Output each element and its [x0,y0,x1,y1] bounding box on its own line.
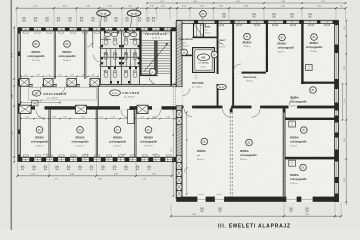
door arcs lobby junction [183,88,190,95]
wall under office 34 y72 [233,72,266,74]
dashed partition between room 28 and 29 [229,108,231,196]
office A east column label [310,87,317,94]
left wing west exterior wall [18,28,21,162]
room 32 circle [181,49,187,55]
right secondary vertical dimension segment [342,84,344,120]
west wall X pier stack lower [176,111,181,118]
door leaf boxes east rooms [289,121,296,127]
office 29 label [246,139,253,146]
WC internal partitions [101,40,140,67]
stair direction line [144,43,168,72]
corridor north wall piers with X bracing [20,79,30,87]
right block west exterior wall hatched [176,21,182,199]
wall between offices 35 and 36 x301 [301,24,303,85]
corridor FOLYOSO label [110,90,121,96]
interior dimension line room 28 [186,112,188,194]
office C east column label [300,164,307,171]
left wing interior fill [21,31,177,158]
drawing frame left border [10,0,12,230]
WC door arcs [100,44,104,48]
bottom office row partition walls [48,110,50,158]
elevator shaft LIFTAKNA [193,48,215,73]
office B east column label [301,127,308,134]
corridor south wall piers with X bracing [19,105,31,113]
svg-text:III. EMELETI ALAPRAJZ: III. EMELETI ALAPRAJZ [218,223,291,229]
wall under TEAKONYHA y55 [182,55,194,57]
office room 26 top-left label [33,41,40,48]
kozlekedo inner dimension line [21,102,60,104]
WC washbasin ovals top row [104,32,110,36]
window sill marks inside rooms top wall [23,31,170,33]
office row interior dimension line [21,75,98,77]
door arcs right block lobby wall [223,109,231,117]
sanitary block walls WC area [101,31,140,85]
column block at corridor [128,110,135,124]
top main dimension chain [17,7,346,9]
room 31 leader circle above top wall [200,11,207,18]
bottom dimension chain right block [171,215,341,217]
room 26 circulation label KOZLEKEDO [29,88,97,100]
extension lines bottom dimensions [18,162,342,215]
wall between storage column and office 34 x233 [232,24,234,107]
stair flight number circle IV [149,69,156,76]
room 33 circle [211,51,217,57]
office 36 label [311,34,318,41]
extension lines from top dimension chain to walls [17,9,346,27]
lobby dividing wall vertical x217 [217,24,219,107]
door arcs top offices into corridor [33,87,41,95]
threshold dashed lines at wing junction [172,87,174,106]
wall under office 36 y82 [301,82,334,84]
top secondary dimension chain right half [147,2,346,4]
hatched partition between room 29 and east rooms [282,108,284,196]
corridor north wall [21,83,177,85]
left wing bottom exterior wall with windows [18,157,178,162]
right block top exterior wall with windows [176,20,339,23]
stairwell LEPCSOHAZ enclosure [140,29,142,77]
office 28 label [201,138,208,145]
door arc office 34 [234,64,241,71]
office 35 label [279,34,286,41]
stairwell exit door arcs [149,78,157,85]
right block interior fill [180,23,336,197]
bottom dimension chain left wing [18,175,173,177]
wall under shaft and RAKT y37 [193,37,219,39]
door arc into room 35 from lobby [289,98,297,106]
WF fixture at corridor wall [32,101,39,106]
leader oval 26-36 first [97,10,111,16]
WC fixtures toilets and basins [104,40,108,45]
bottom row office labels [36,127,43,134]
WC door jambs dark blocks [101,45,103,47]
lobby south wall spanning right block y106 [182,106,335,109]
stair treads [142,41,170,74]
wall between offices 34 and 35 x266 [266,24,268,73]
leader oval 26-36 second [127,10,141,16]
door arcs from corridor to bottom offices [36,110,45,118]
oval label 26-32 in lobby [217,84,227,89]
kozlekedo partition wall [97,86,99,106]
office room 26a second top office label [64,41,71,48]
stair stringer handrail [155,41,158,75]
window sill marks right block top wall [200,24,329,26]
opening between corridor and right block lobby [176,87,183,106]
shaft enclosure near top [194,24,204,38]
vestibule walls and door arcs [92,31,94,48]
office 34 label [244,33,251,40]
window mullion ticks left wing walls [26,28,168,162]
right block east exterior wall with windows [335,20,339,202]
left wing top exterior wall with windows [18,28,177,31]
wall between rooms B and C right column y157 [285,157,335,160]
door arc storage RAKT2 [218,38,224,44]
corridor dimension chain [21,118,175,120]
window sill marks inside rooms bottom wall [23,155,171,157]
wall between rooms A and B right column y118 [285,118,335,120]
corridor south wall [21,106,177,109]
right vertical dimension chain [345,21,347,206]
right block bottom exterior wall with windows [176,197,338,202]
left vertical dimension chain [13,28,15,163]
top office row partition walls [53,31,55,79]
outside vertical dimension line west of block [172,110,174,196]
